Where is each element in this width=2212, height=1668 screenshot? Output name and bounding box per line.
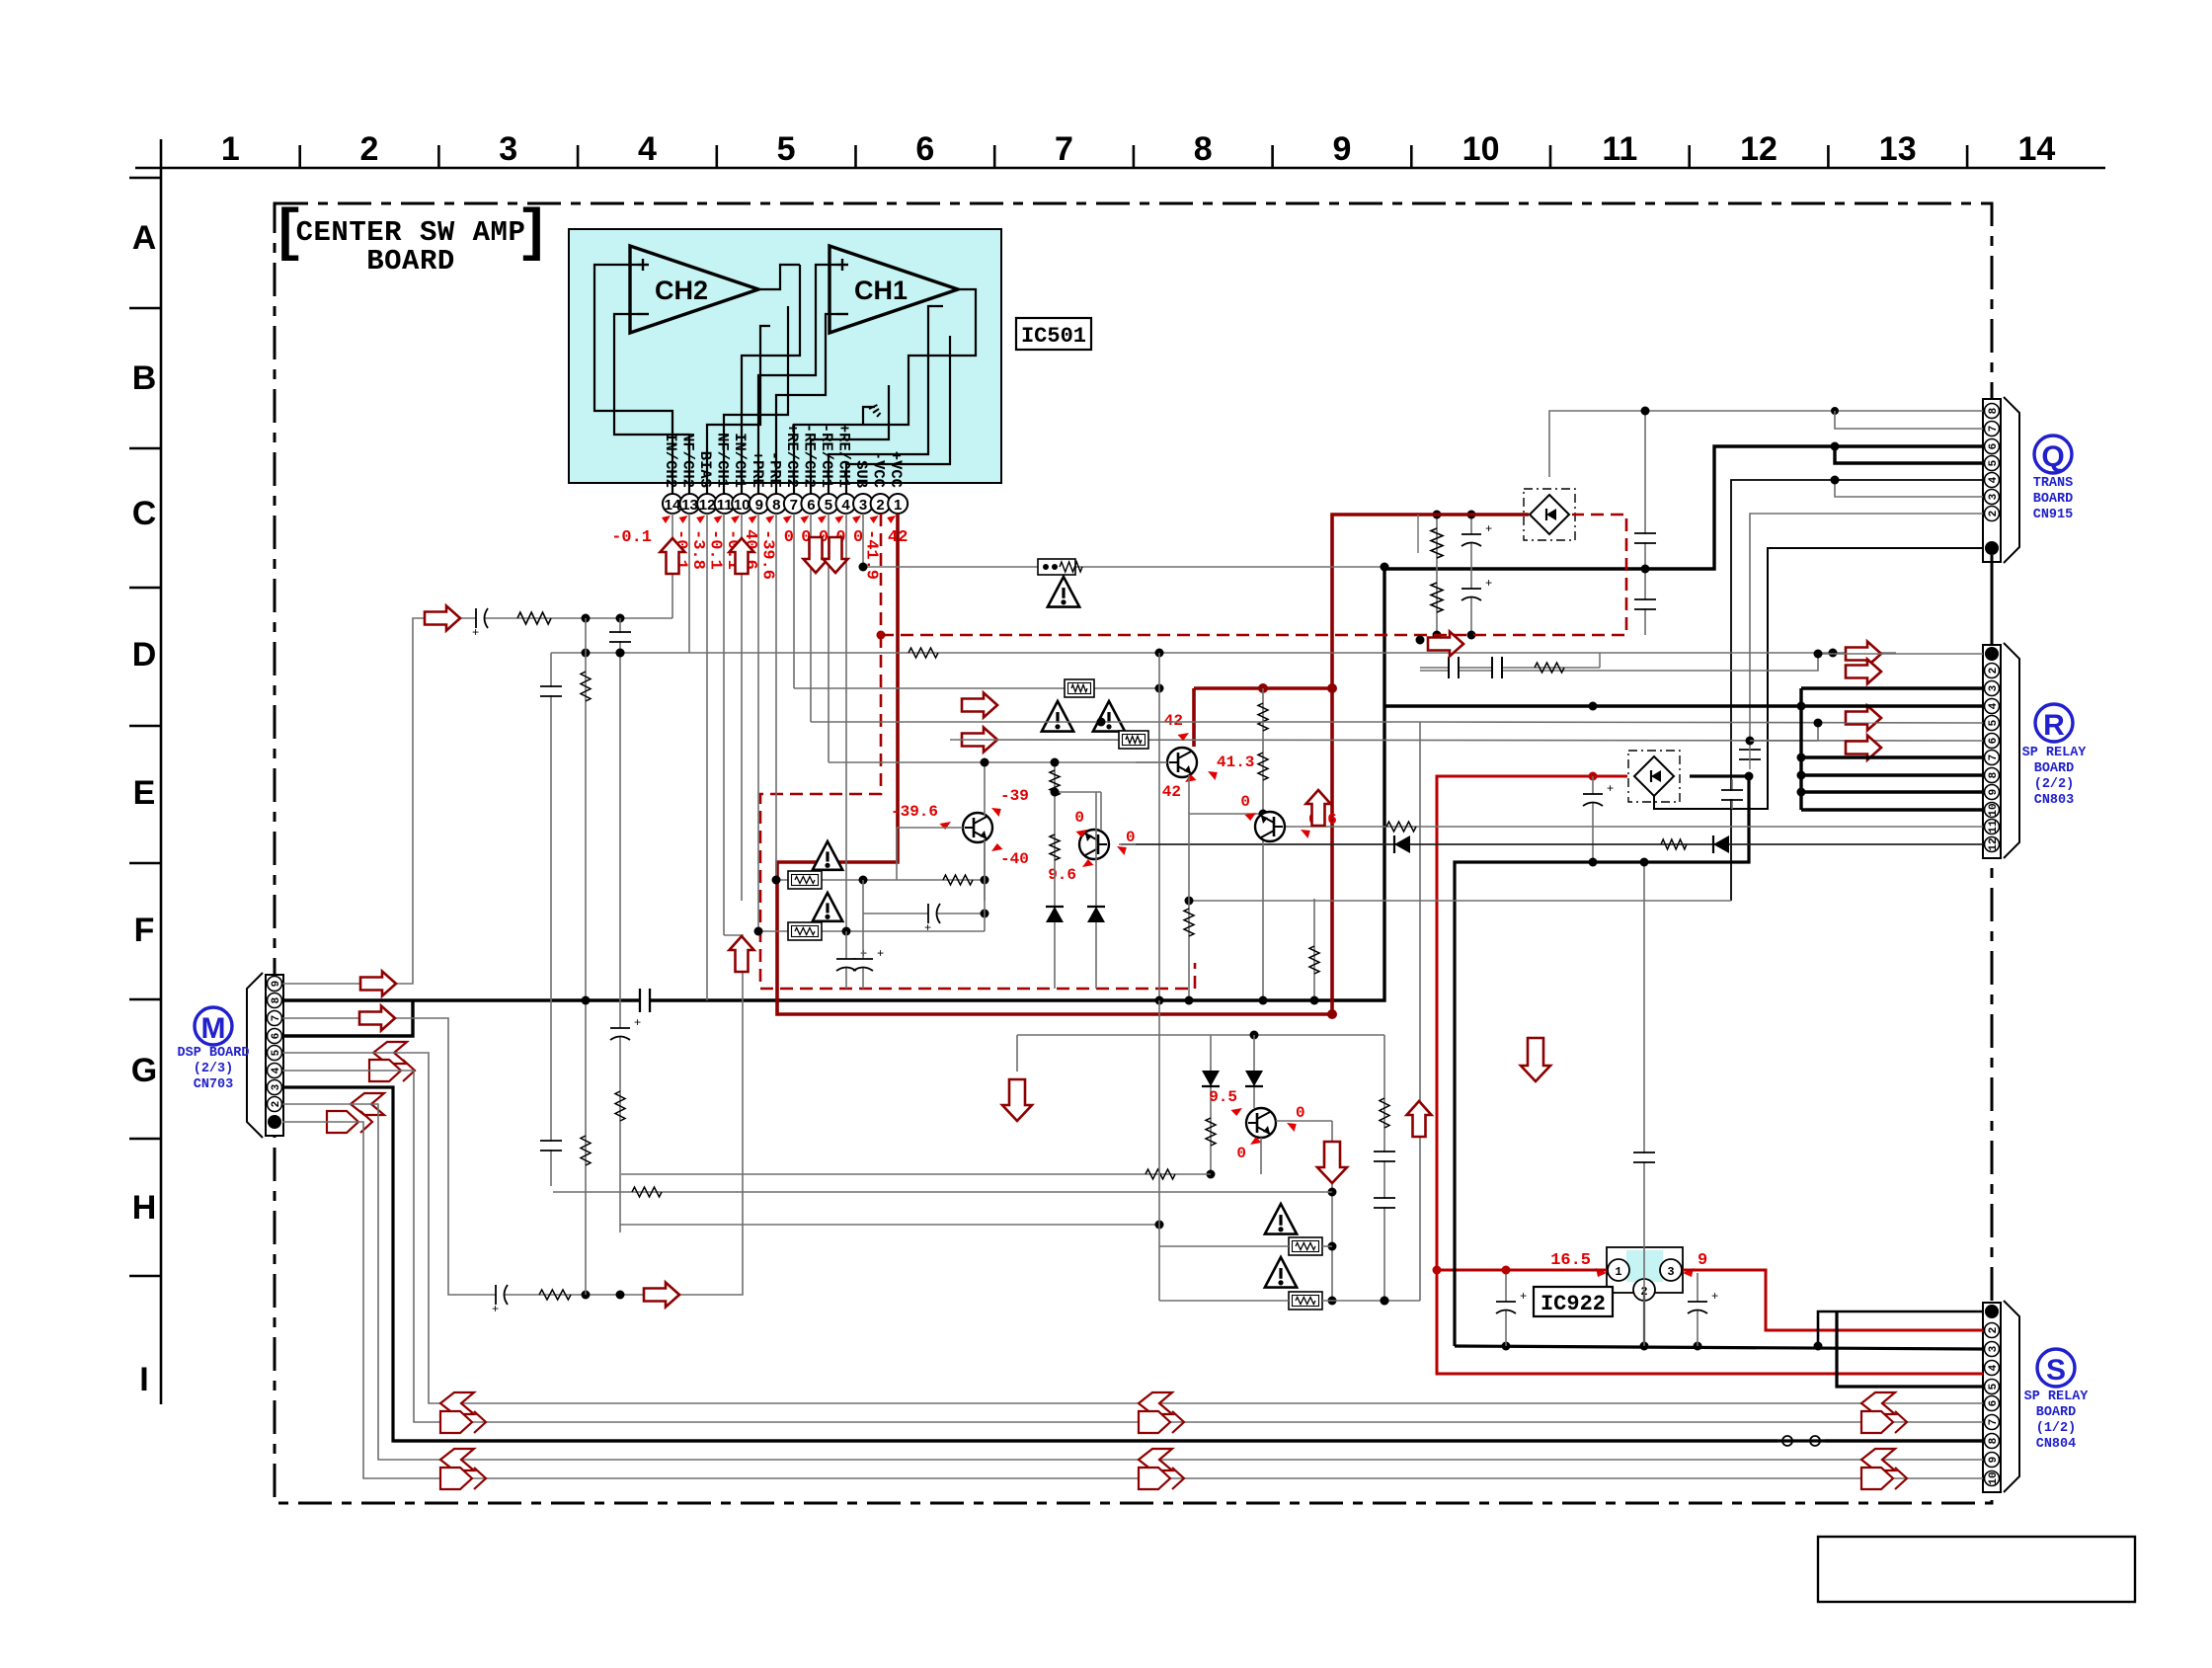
svg-text:-39: -39 xyxy=(1000,787,1029,805)
svg-text:2: 2 xyxy=(1988,511,2000,517)
svg-text:2: 2 xyxy=(1988,668,2000,675)
wire Q2 long vertical xyxy=(1750,514,1983,741)
R11 line xyxy=(1285,826,1983,828)
wire M shield bottom run xyxy=(282,1122,1983,1478)
op-amp CH1 xyxy=(829,246,958,333)
svg-text:3: 3 xyxy=(1988,493,2000,500)
line y=697 boxed xyxy=(1019,687,1159,689)
line y=912 right xyxy=(1189,900,1731,902)
border ruler top line xyxy=(135,167,2105,170)
red up arrow F xyxy=(730,936,754,972)
capacitor C in trunk xyxy=(639,989,641,1012)
svg-text:4: 4 xyxy=(1988,702,2000,709)
svg-text:BIAS: BIAS xyxy=(696,451,714,488)
svg-text:3: 3 xyxy=(499,130,517,168)
svg-text:0: 0 xyxy=(1240,793,1250,811)
svg-text:+: + xyxy=(634,1016,641,1030)
thick red bridge feed xyxy=(1332,515,1529,1014)
svg-text:6: 6 xyxy=(1988,443,2000,450)
S5 net xyxy=(1837,1312,1983,1387)
line y=772 base xyxy=(829,761,1167,763)
svg-text:-PRE: -PRE xyxy=(765,451,783,488)
svg-text:IC501: IC501 xyxy=(1021,324,1086,349)
svg-text:3: 3 xyxy=(271,1083,282,1090)
svg-text:10: 10 xyxy=(1988,803,2000,816)
svg-text:7: 7 xyxy=(1988,426,2000,433)
svg-text:4: 4 xyxy=(841,497,850,514)
svg-text:5: 5 xyxy=(825,497,832,514)
caps F xyxy=(845,931,847,989)
svg-text:5: 5 xyxy=(271,1049,282,1056)
D902 dashed-area caps xyxy=(1417,515,1419,553)
arrows at M xyxy=(360,972,396,996)
S8 relay line xyxy=(1821,1439,1983,1442)
svg-text:CH2: CH2 xyxy=(655,276,708,305)
svg-text:7: 7 xyxy=(271,1015,282,1022)
pin drop wires xyxy=(671,514,673,618)
x1402 lower RC chain xyxy=(1383,1035,1385,1301)
wire M3 bottom run thick xyxy=(282,1087,1983,1441)
svg-text:5: 5 xyxy=(1988,1383,2000,1390)
svg-text:S: S xyxy=(2046,1354,2066,1387)
svg-text:14: 14 xyxy=(2017,130,2055,168)
svg-text:4: 4 xyxy=(1988,1364,2000,1371)
svg-text:G: G xyxy=(131,1052,157,1089)
svg-text:D: D xyxy=(132,636,157,674)
connector M symbol xyxy=(195,1007,232,1045)
series R+D to cap right xyxy=(1661,839,1687,849)
svg-text:9: 9 xyxy=(755,497,763,514)
svg-text:1: 1 xyxy=(1615,1265,1621,1279)
thick red +VCC net from pin1 xyxy=(777,514,1333,1014)
res chain x1068 xyxy=(1054,760,1056,989)
svg-text:2: 2 xyxy=(1988,1327,2000,1334)
svg-text:+: + xyxy=(877,947,884,961)
svg-text:12: 12 xyxy=(699,497,716,514)
svg-text:SUB: SUB xyxy=(852,460,870,488)
svg-text:10: 10 xyxy=(734,497,750,514)
svg-text:SP RELAY: SP RELAY xyxy=(2022,746,2088,760)
svg-text:13: 13 xyxy=(1879,130,1917,168)
svg-text:9.6: 9.6 xyxy=(1048,866,1076,884)
diodes D5xx up xyxy=(1095,792,1097,989)
svg-text:4: 4 xyxy=(1988,476,2000,483)
connector CN804 (S) body xyxy=(1983,1303,2001,1492)
wire M7 loop xyxy=(282,935,743,1295)
svg-text:+VCC: +VCC xyxy=(887,451,905,488)
svg-text:0: 0 xyxy=(784,528,794,547)
svg-text:B: B xyxy=(132,359,157,397)
svg-text:TRANS: TRANS xyxy=(2033,476,2074,491)
wire Q3 join Q4 xyxy=(1835,480,1983,497)
svg-text:-41.9: -41.9 xyxy=(862,529,881,580)
wire Q8 to bridge xyxy=(1549,411,1983,477)
svg-text:-0.1: -0.1 xyxy=(611,528,652,547)
svg-text:NF/CH2: NF/CH2 xyxy=(679,433,697,488)
H warning/boxres pairs xyxy=(1265,1204,1297,1234)
D901 output loop xyxy=(1455,776,1749,1346)
svg-text:3: 3 xyxy=(1667,1265,1674,1279)
svg-text:SP RELAY: SP RELAY xyxy=(2024,1390,2090,1404)
svg-text:+: + xyxy=(1485,522,1492,536)
regulator IC922 body xyxy=(1607,1247,1683,1293)
op-amp CH2 xyxy=(630,246,758,333)
svg-text:10: 10 xyxy=(1462,130,1500,168)
svg-text:CN804: CN804 xyxy=(2036,1437,2077,1452)
svg-text:11: 11 xyxy=(1602,130,1637,168)
svg-text:6: 6 xyxy=(1988,1400,2000,1407)
svg-text:+: + xyxy=(1485,577,1492,591)
svg-text:7: 7 xyxy=(790,497,798,514)
bridge rectifier D901 xyxy=(1628,751,1680,802)
IC922 caps xyxy=(1505,1270,1507,1346)
svg-text:+RE/CH1: +RE/CH1 xyxy=(835,424,853,488)
IC501 reference label box xyxy=(1016,318,1091,350)
line y=925 cap xyxy=(863,913,985,914)
line y=697 left part xyxy=(794,687,1019,689)
svg-text:H: H xyxy=(132,1189,157,1227)
op-amp IC501 block body xyxy=(569,229,1001,483)
svg-text:CN803: CN803 xyxy=(2034,793,2075,808)
line y=1189 xyxy=(621,1173,1211,1175)
svg-text:DSP BOARD: DSP BOARD xyxy=(178,1046,250,1061)
bottom arrows xyxy=(440,1392,474,1414)
svg-text:42: 42 xyxy=(1164,712,1183,730)
line y=731 long xyxy=(811,721,1420,723)
svg-text:+: + xyxy=(472,626,479,640)
svg-text:F: F xyxy=(134,912,155,949)
line y=731 to R5 xyxy=(1420,722,1983,723)
svg-text:-39.6: -39.6 xyxy=(757,529,776,580)
connector R brace xyxy=(2004,643,2019,858)
svg-text:7: 7 xyxy=(1055,130,1073,168)
svg-text:9: 9 xyxy=(1698,1251,1707,1270)
svg-text:6: 6 xyxy=(271,1033,282,1040)
connector CN915 (Q) body xyxy=(1983,399,2001,562)
wire M6 to trunk xyxy=(282,1000,413,1036)
wire Q shield down xyxy=(1654,548,1983,809)
svg-text:1: 1 xyxy=(894,497,902,514)
connector CN803 (R) body xyxy=(1983,645,2001,858)
connector Q brace xyxy=(2004,397,2019,563)
D arrow down right xyxy=(1521,1038,1550,1081)
svg-text:A: A xyxy=(132,219,157,257)
svg-text:+: + xyxy=(1607,782,1614,796)
svg-text:BOARD: BOARD xyxy=(366,245,455,278)
relay contacts xyxy=(1777,1433,1825,1449)
arrows row D xyxy=(962,693,997,718)
svg-text:12: 12 xyxy=(1740,130,1777,168)
svg-text:5: 5 xyxy=(777,130,796,168)
svg-text:3: 3 xyxy=(1988,1345,2000,1352)
bright red bridge D901 net xyxy=(1437,776,1983,1374)
svg-text:NF/CH1: NF/CH1 xyxy=(714,433,732,488)
line y=1207 xyxy=(553,1191,1332,1193)
red IC922 output to S2 xyxy=(1683,1270,1983,1330)
svg-text:0: 0 xyxy=(853,528,863,547)
svg-text:3: 3 xyxy=(859,497,867,514)
cap pair D row xyxy=(1420,667,1600,669)
svg-text:11: 11 xyxy=(717,497,733,514)
R shield/2 wires xyxy=(1419,653,1421,655)
svg-text:M: M xyxy=(201,1012,226,1045)
arrows at R xyxy=(1846,642,1881,667)
cap/res on M9 line xyxy=(476,608,484,628)
connector R symbol xyxy=(2035,704,2073,742)
svg-text:-3.8: -3.8 xyxy=(688,529,707,570)
title block rectangle xyxy=(1818,1537,2135,1602)
svg-text:9.5: 9.5 xyxy=(1209,1088,1237,1106)
IC922 pin2 down xyxy=(1643,1290,1645,1346)
red down arrow G xyxy=(1002,1079,1032,1121)
boxed resistor F1 xyxy=(776,879,985,881)
bridge D902 caps/resistors xyxy=(1436,515,1438,638)
svg-text:C: C xyxy=(132,495,157,532)
svg-text:CN915: CN915 xyxy=(2033,508,2074,522)
svg-text:+: + xyxy=(1711,1290,1718,1304)
long line y=662 xyxy=(551,652,1896,654)
diode D keep G2 xyxy=(1253,1035,1255,1108)
bridge rectifier D902 xyxy=(1524,489,1575,540)
connector Q symbol xyxy=(2034,436,2072,473)
capacitor bank at Q xyxy=(1644,411,1646,635)
ground symbol inside IC501 xyxy=(863,407,875,425)
svg-text:13: 13 xyxy=(681,497,698,514)
connector S symbol xyxy=(2037,1349,2075,1387)
svg-text:(1/2): (1/2) xyxy=(2036,1421,2077,1436)
svg-text:+: + xyxy=(1520,1290,1527,1304)
svg-text:IC922: IC922 xyxy=(1540,1292,1606,1316)
R thick comb xyxy=(1384,704,1983,707)
svg-text:8: 8 xyxy=(1988,1437,2000,1444)
svg-text:BOARD: BOARD xyxy=(2036,1405,2077,1420)
svg-text:41.3: 41.3 xyxy=(1217,754,1254,771)
R12 line xyxy=(1121,843,1983,845)
vertical x1665 xyxy=(1643,862,1645,1346)
left verticals x558 x593 x628 xyxy=(550,653,552,1186)
resistor pair x1279 xyxy=(1262,688,1264,1000)
D row line y626 right portion xyxy=(1400,665,1402,667)
wire M2 bottom run xyxy=(282,1104,1983,1460)
svg-text:(2/2): (2/2) xyxy=(2034,777,2075,792)
svg-text:R: R xyxy=(2043,709,2065,742)
svg-text:-VCC: -VCC xyxy=(870,451,888,488)
pin arrows xyxy=(661,538,685,574)
svg-text:2: 2 xyxy=(271,1101,282,1108)
wire Q4 long vertical xyxy=(1731,480,1983,901)
IC501 internal wiring xyxy=(594,265,672,494)
svg-text:0: 0 xyxy=(1296,1104,1305,1122)
svg-text:8: 8 xyxy=(772,497,780,514)
svg-text:BOARD: BOARD xyxy=(2033,492,2074,507)
svg-text:2: 2 xyxy=(360,130,379,168)
svg-text:8: 8 xyxy=(1194,130,1213,168)
svg-text:8: 8 xyxy=(1988,407,2000,414)
vertical x1349 xyxy=(1331,1121,1333,1301)
svg-text:-39.6: -39.6 xyxy=(891,803,938,821)
IC922 label box xyxy=(1534,1287,1613,1316)
warning triangles row D xyxy=(1042,701,1073,732)
S1 shield link xyxy=(1818,1311,1983,1346)
svg-text:9: 9 xyxy=(1332,130,1351,168)
svg-text:14: 14 xyxy=(665,497,681,514)
svg-text:-0.1: -0.1 xyxy=(706,529,725,570)
wire M8 speaker trunk xyxy=(282,446,1983,1000)
svg-text:(2/3): (2/3) xyxy=(194,1062,234,1076)
wire Q7 join Q8 xyxy=(1835,411,1983,429)
transistor Q502 41.3 xyxy=(1167,748,1197,777)
svg-text:6: 6 xyxy=(807,497,815,514)
svg-text:16.5: 16.5 xyxy=(1550,1251,1591,1270)
svg-text:IN/CH1: IN/CH1 xyxy=(731,433,749,488)
diode D keep G1 xyxy=(1210,1035,1212,1174)
svg-text:Q: Q xyxy=(2041,440,2064,473)
diode ladder top line xyxy=(1017,1034,1384,1036)
wire M4 bottom run xyxy=(282,1071,1983,1422)
svg-text:+: + xyxy=(492,1303,499,1316)
R5/R6 pair xyxy=(1818,722,1983,724)
transistor Q504 0.6 xyxy=(1255,812,1285,841)
emitter vertical Q501 xyxy=(984,840,986,931)
svg-text:10: 10 xyxy=(1988,1471,2000,1484)
wire Q shield to R shield link xyxy=(1991,555,1994,638)
svg-text:9: 9 xyxy=(1988,789,2000,796)
IC501 pin circles 14..1 xyxy=(663,494,682,514)
transistor Q501 -39.6 xyxy=(963,813,992,842)
svg-text:IN/CH2: IN/CH2 xyxy=(662,433,679,488)
svg-text:4: 4 xyxy=(271,1067,282,1073)
boxed resistor F2 xyxy=(758,930,985,932)
transistor Q505 9.5 xyxy=(1246,1108,1276,1138)
connector M brace xyxy=(247,973,263,1138)
wire Q5 join xyxy=(1835,446,1983,463)
red IC922 input branch xyxy=(1437,1269,1607,1272)
svg-text:-RE/CH2: -RE/CH2 xyxy=(800,424,818,488)
transistor Q503 9.6 xyxy=(1079,830,1109,859)
svg-text:5: 5 xyxy=(1988,459,2000,466)
svg-text:+PRE: +PRE xyxy=(749,451,766,488)
x1174 lower vertical xyxy=(1158,1000,1160,1301)
svg-text:9: 9 xyxy=(271,981,282,988)
svg-text:4: 4 xyxy=(638,130,657,168)
svg-text:CH1: CH1 xyxy=(854,276,908,305)
svg-text:42: 42 xyxy=(1162,783,1181,801)
svg-text:6: 6 xyxy=(1988,738,2000,745)
svg-text:-RE/CH1: -RE/CH1 xyxy=(818,424,835,488)
svg-text:1: 1 xyxy=(221,130,240,168)
svg-text:12: 12 xyxy=(1988,837,2000,850)
line y=749 boxed to R6 xyxy=(950,740,1983,741)
svg-text:CN703: CN703 xyxy=(194,1077,234,1092)
red up arrow near Q504 xyxy=(1306,790,1331,826)
x=1174 vertical xyxy=(1158,653,1160,1000)
svg-text:+RE/CH2: +RE/CH2 xyxy=(783,424,801,488)
svg-text:11: 11 xyxy=(1988,820,2000,834)
svg-text:I: I xyxy=(139,1361,148,1398)
wire M9 loop xyxy=(282,618,672,984)
line y=1240 xyxy=(620,1224,1159,1226)
row ticks xyxy=(129,177,161,180)
svg-text:6: 6 xyxy=(915,130,934,168)
svg-text:+: + xyxy=(924,921,931,935)
svg-text:E: E xyxy=(133,774,156,812)
thick red stub at transistor xyxy=(1194,686,1333,690)
svg-text:7: 7 xyxy=(1988,1419,2000,1426)
svg-text:8: 8 xyxy=(1988,771,2000,778)
border ruler left line xyxy=(160,139,163,1404)
svg-text:0: 0 xyxy=(1074,809,1084,827)
connector CN703 (M) body xyxy=(266,975,283,1136)
D901 reservoir caps xyxy=(1592,776,1594,862)
svg-text:9: 9 xyxy=(1988,1457,2000,1464)
svg-text:3: 3 xyxy=(1988,684,2000,691)
M7 loop cap/res xyxy=(496,1285,504,1305)
column ticks xyxy=(298,145,301,168)
svg-text:5: 5 xyxy=(1988,719,2000,726)
red dashed -VCC net from pin2 xyxy=(880,514,883,635)
svg-text:BOARD: BOARD xyxy=(2034,761,2075,776)
svg-text:8: 8 xyxy=(271,996,282,1003)
board outline dash-dot border xyxy=(275,203,1992,1503)
svg-text:-40: -40 xyxy=(1000,850,1029,868)
wire M5 bottom run xyxy=(282,1053,1983,1403)
connector S brace xyxy=(2004,1301,2019,1492)
svg-text:7: 7 xyxy=(1988,755,2000,761)
svg-text:0: 0 xyxy=(1236,1145,1246,1162)
svg-text:2: 2 xyxy=(876,497,884,514)
fusible resistor line y=574 xyxy=(863,566,1383,568)
S3 ground trunk xyxy=(1455,1346,1983,1349)
